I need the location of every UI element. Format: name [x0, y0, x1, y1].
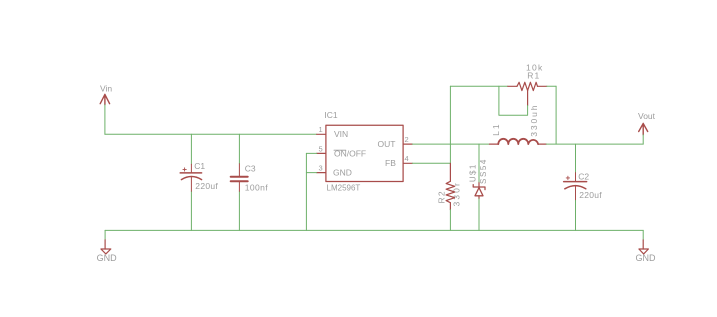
wire C2 upper drop — [575, 144, 577, 173]
ground left — [97, 230, 118, 263]
pin 2 OUT stub — [403, 143, 412, 145]
resistor R2 330r — [437, 163, 462, 209]
svg-text:330uh: 330uh — [529, 104, 539, 137]
svg-text:VIN: VIN — [334, 129, 348, 139]
svg-text:2: 2 — [405, 135, 409, 144]
wire C3 lower drop — [238, 191, 240, 230]
wire ground bus — [105, 229, 643, 231]
wire Vin stem — [104, 105, 106, 135]
pin 5 ON/OFF stub — [317, 152, 326, 154]
svg-text:C2: C2 — [578, 172, 589, 182]
svg-text:GND: GND — [333, 168, 352, 178]
ground right — [636, 230, 657, 263]
wire C3 upper drop — [238, 134, 240, 164]
wire GND pin to tie — [306, 172, 316, 174]
wire R1 row left — [450, 85, 507, 87]
svg-text:5: 5 — [319, 144, 323, 153]
wire R2 bottom — [449, 210, 451, 231]
svg-text:4: 4 — [405, 154, 409, 163]
wire R1 right vertical down to output node — [555, 86, 557, 144]
wire tie vertical to ground bus — [305, 153, 307, 230]
svg-text:C3: C3 — [245, 163, 256, 173]
svg-text:220uf: 220uf — [195, 181, 218, 191]
supply arrow VOUT — [638, 111, 656, 135]
svg-text:330r: 330r — [451, 181, 461, 206]
svg-text:C1: C1 — [194, 161, 205, 171]
wire output rail — [546, 143, 643, 145]
wire diode top — [478, 144, 480, 182]
supply arrow VIN — [100, 84, 112, 105]
diode U$1 SS54 — [469, 158, 489, 199]
capacitor C2 220uf — [564, 172, 603, 201]
svg-text:R1: R1 — [527, 70, 540, 80]
svg-text:100nf: 100nf — [245, 183, 269, 193]
inductor L1 330uh — [490, 104, 547, 144]
capacitor C1 220uf — [180, 161, 218, 191]
svg-text:Vout: Vout — [638, 111, 656, 121]
wire C1 upper drop — [190, 134, 192, 164]
wire R1 wiper loop — [499, 86, 528, 115]
svg-text:Vin: Vin — [100, 84, 112, 94]
svg-text:220uf: 220uf — [579, 190, 602, 200]
IC IC1 LM2596T — [317, 110, 413, 192]
wire C1 lower drop — [190, 191, 192, 230]
svg-text:FB: FB — [385, 158, 396, 168]
R1 wiper tap — [527, 90, 529, 105]
svg-text:IC1: IC1 — [324, 110, 338, 120]
svg-text:L1: L1 — [491, 122, 501, 135]
wire diode bottom — [478, 199, 480, 230]
wire ON/OFF to tie — [306, 152, 316, 154]
wire top input rail — [105, 133, 317, 135]
pin 1 VIN stub — [317, 133, 326, 135]
resistor R1 10k — [508, 63, 547, 106]
svg-text:1: 1 — [319, 125, 323, 134]
svg-text:LM2596T: LM2596T — [327, 183, 361, 192]
svg-text:OUT: OUT — [378, 139, 396, 149]
svg-text:R2: R2 — [437, 190, 447, 203]
wire OUT to switch node — [412, 143, 489, 145]
svg-text:SS54: SS54 — [479, 158, 488, 184]
svg-text:3: 3 — [319, 164, 323, 173]
wire R1 row right — [547, 85, 556, 87]
wire FB horizontal — [412, 162, 450, 164]
wire FB vertical up to R1 row — [449, 86, 451, 163]
wire C2 lower drop — [575, 201, 577, 231]
wire Vout stem — [642, 135, 644, 144]
svg-text:GND: GND — [97, 253, 118, 263]
svg-text:U$1: U$1 — [469, 163, 478, 182]
capacitor C3 100nf — [231, 163, 269, 192]
svg-text:GND: GND — [636, 253, 657, 263]
pin 3 GND stub — [317, 172, 326, 174]
pin 4 FB stub — [403, 162, 412, 164]
